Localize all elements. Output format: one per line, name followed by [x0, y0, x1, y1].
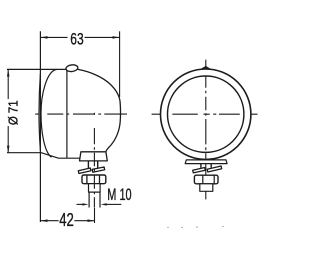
node: dia71 top arrow: [7, 70, 10, 77]
wire: side view vertical centerline: [93, 113, 95, 208]
wire: M10 left leader: [77, 203, 84, 205]
wire: bottom extension line dia71: [7, 152, 40, 154]
wire: threaded rod side view: [88, 192, 90, 207]
node: housing back curve side view: [78, 69, 121, 151]
wire: top extension line / lamp top edge: [7, 68, 67, 70]
node: scan specks: [167, 226, 224, 228]
node: hex nut front view: [194, 175, 218, 184]
wire: rim back edge side view: [66, 69, 68, 158]
node: screw triangle front view: [200, 66, 212, 70]
svg-text:Ø 71: Ø 71: [7, 100, 21, 125]
node: spring washer left blade side view: [78, 168, 91, 174]
node: hex nut side view: [82, 175, 106, 184]
wire: front view horizontal centerline: [152, 113, 258, 115]
node: inner circle front view: [168, 76, 244, 152]
wire: stud front view: [200, 164, 202, 168]
node: bolt shank side view: [89, 184, 101, 192]
wire: 63 right extension line: [119, 31, 121, 97]
wire: front face / extension line of lamp side view: [39, 31, 41, 222]
wire: housing bottom slope and flat: [40, 152, 81, 158]
wire: 42 dimension line: [40, 220, 58, 222]
wire: stud side view: [87, 161, 89, 168]
node: spring washer left blade front view: [193, 168, 206, 173]
node: screw ellipse on lamp top: [66, 64, 79, 72]
wire: diameter 71 dimension line: [7, 69, 9, 99]
node: dia71 bottom arrow: [7, 146, 10, 153]
node: mounting foot side view: [80, 152, 108, 161]
node: lamp lens profile arc side view: [41, 70, 57, 158]
svg-text:63: 63: [70, 30, 83, 49]
wire: M10 right leader: [106, 203, 122, 205]
node: 63 left arrow: [41, 36, 48, 39]
node: spring washer right blade front view: [207, 166, 222, 172]
node: bolt shank front view: [200, 184, 213, 192]
svg-text:42: 42: [59, 210, 74, 230]
node: mounting foot bar front view: [185, 160, 227, 164]
wire: 63 dimension line: [40, 36, 67, 38]
wire: side view horizontal centerline: [35, 113, 127, 115]
node: spring washer right blade side view: [92, 167, 105, 172]
wire: front view vertical centerline: [205, 60, 207, 200]
node: outer circle front view: [161, 69, 251, 159]
wire: 42 right extension line: [94, 208, 96, 223]
svg-text:M 10: M 10: [107, 185, 131, 204]
node: lamp lens front arc side view: [39, 74, 40, 151]
node: 63 right arrow: [113, 36, 120, 39]
